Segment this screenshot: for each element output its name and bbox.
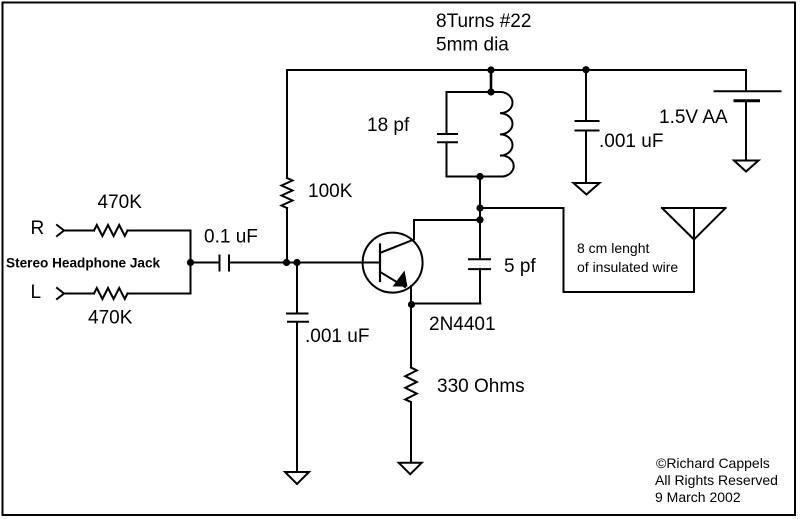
svg-text:0.1 uF: 0.1 uF (204, 227, 258, 248)
tank left branch (446, 92, 448, 177)
wire R input (64, 230, 191, 232)
ground for C2 (285, 472, 309, 484)
node dot collector junction (476, 216, 483, 223)
wire emitter (410, 286, 412, 305)
node dot jack out (187, 259, 194, 266)
svg-text:of insulated wire: of insulated wire (577, 259, 678, 275)
tank tap thick wire (490, 70, 493, 92)
connector L chevron (57, 288, 64, 299)
node dot rail tap (487, 66, 494, 73)
node dot base R3 (283, 259, 290, 266)
inductor L1 coil (500, 92, 514, 177)
resistor R1 470K zigzag (94, 225, 127, 236)
battery B1 short plate (735, 99, 759, 102)
wire battery to ground (745, 101, 747, 161)
wire L input (64, 293, 191, 295)
ground for C5 (574, 183, 600, 195)
svg-text:8 cm lenght: 8 cm lenght (577, 240, 649, 256)
svg-text:5mm dia: 5mm dia (436, 35, 509, 56)
capacitor C2 .001uF plates (287, 314, 308, 322)
node dot tank bottom (476, 173, 483, 180)
wire tank to node (479, 177, 481, 220)
transistor Q1 emitter stroke (381, 273, 405, 288)
wire .001uF right branch (585, 70, 587, 183)
antenna symbol (662, 208, 726, 240)
transistor Q1 base bar (379, 245, 381, 282)
transistor Q1 emitter arrow (393, 271, 408, 287)
node dot rail C5 (582, 66, 589, 73)
svg-text:330 Ohms: 330 Ohms (437, 376, 525, 397)
capacitor C5 .001uF plates (576, 121, 599, 131)
svg-text:.001 uF: .001 uF (305, 326, 369, 347)
capacitor C4 18pf plates (438, 134, 457, 142)
svg-text:All Rights Reserved: All Rights Reserved (655, 472, 778, 488)
transistor Q1 collector stroke (381, 240, 414, 253)
battery B1 long plate (715, 90, 781, 92)
wire .001uF left branch (296, 263, 298, 473)
wire base (191, 262, 381, 264)
wire battery drop (745, 70, 747, 91)
svg-text:470K: 470K (98, 192, 143, 213)
transistor Q1 circle (363, 233, 423, 293)
wire 5pf branch (411, 177, 481, 304)
svg-text:©Richard Cappels: ©Richard Cappels (656, 455, 770, 471)
svg-text:1.5V AA: 1.5V AA (659, 107, 728, 128)
svg-text:5 pf: 5 pf (504, 256, 536, 277)
connector R chevron (57, 225, 64, 236)
resistor R3 100K zigzag (282, 178, 293, 208)
node dot coil top (487, 88, 494, 95)
svg-text:.001 uF: .001 uF (599, 131, 663, 152)
ground for battery (734, 161, 759, 172)
resistor R4 330 Ohms zigzag (405, 368, 417, 402)
svg-text:R: R (31, 218, 45, 239)
svg-text:L: L (31, 282, 42, 303)
node dot antenna junction (476, 204, 483, 211)
svg-text:18 pf: 18 pf (367, 115, 410, 136)
svg-text:470K: 470K (88, 308, 133, 329)
svg-text:2N4401: 2N4401 (429, 314, 496, 335)
capacitor C1 0.1uF plates (220, 256, 230, 271)
tank top line (447, 91, 501, 93)
wire emitter resistor (410, 305, 412, 463)
wire 100K branch vertical (286, 70, 288, 263)
node dot base C2 (293, 259, 300, 266)
node dot emitter junction (408, 301, 415, 308)
resistor R2 470K zigzag (94, 288, 127, 299)
wire antenna run (480, 208, 694, 292)
svg-text:8Turns #22: 8Turns #22 (436, 11, 531, 32)
wire top rail (287, 69, 746, 71)
svg-text:9 March 2002: 9 March 2002 (655, 489, 741, 505)
capacitor C3 5pf plates (469, 259, 490, 269)
wire collector (414, 220, 480, 239)
ground for R4 (399, 463, 422, 474)
tank bottom line (447, 176, 501, 178)
svg-text:100K: 100K (308, 181, 353, 202)
svg-text:Stereo Headphone Jack: Stereo Headphone Jack (6, 256, 161, 271)
wire jack vertical (190, 231, 192, 294)
